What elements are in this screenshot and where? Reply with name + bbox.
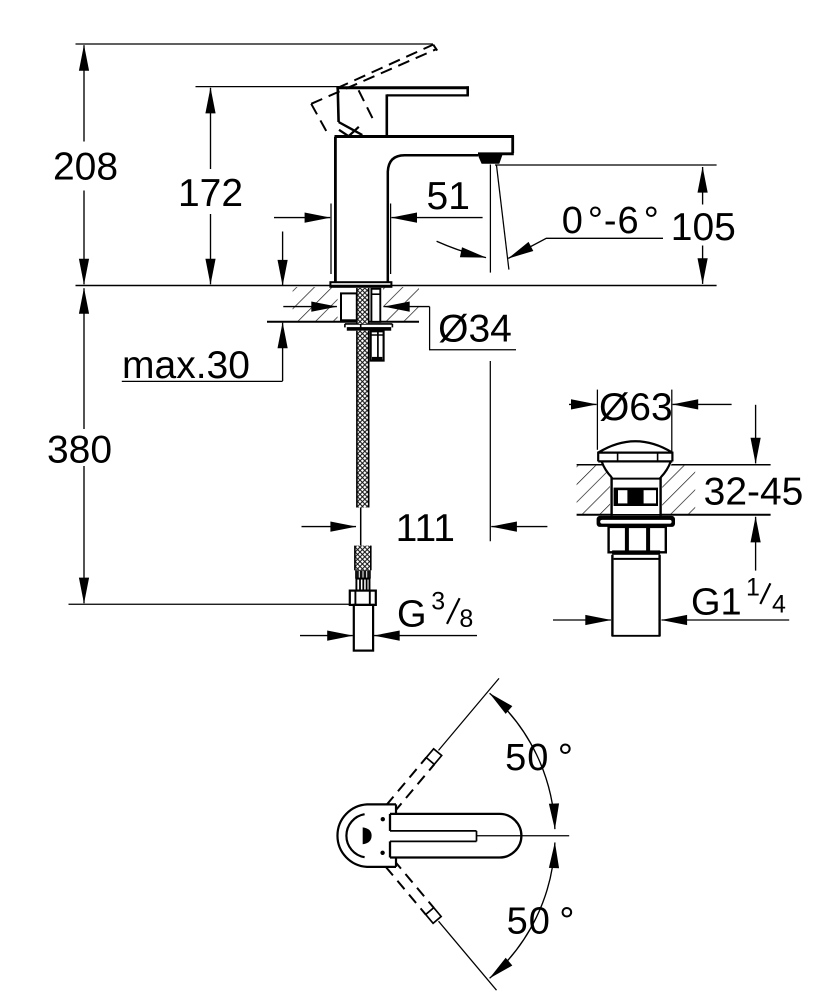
dimension 51 extension lines — [330, 204, 332, 275]
dimension 208 vertical line with arrows — [83, 45, 85, 141]
connector shoulder with stripes — [356, 579, 369, 591]
svg-text:50 °: 50 ° — [505, 737, 574, 779]
leader box O34 — [430, 307, 516, 350]
svg-text:172: 172 — [178, 172, 243, 215]
faucet body top / spout top — [335, 135, 515, 138]
svg-text:380: 380 — [47, 429, 112, 472]
drain body sides — [610, 477, 612, 516]
crimp collar — [355, 570, 371, 578]
threaded stud in hole — [371, 289, 380, 322]
countertop bottom line — [267, 321, 419, 323]
spray angle leader with arrow — [508, 238, 663, 258]
svg-text:32-45: 32-45 — [704, 471, 804, 514]
extension line top of faucet (208 ref) — [76, 43, 434, 45]
body left edge — [334, 137, 337, 283]
svg-text:8: 8 — [459, 605, 473, 633]
top view: lever slot — [390, 830, 477, 832]
drain countertop line bottom — [577, 514, 771, 516]
hose break line — [360, 508, 362, 546]
drain countertop hatching right — [662, 466, 695, 515]
countertop hatching left of hole — [293, 287, 338, 321]
spray angle arc arrow — [437, 241, 486, 257]
spray angle lines 0-6 deg — [489, 165, 491, 273]
top view: arc 50 upper with arrows — [490, 693, 555, 829]
extension line handle top (172 ref) — [196, 86, 340, 88]
spout front edge — [511, 136, 514, 153]
dimension 32-45 arrows — [755, 405, 757, 464]
drain body inner line — [612, 478, 660, 480]
drain neck flare — [602, 462, 612, 478]
top view: dashed lever rotated up 50 — [375, 749, 442, 826]
drain window frame — [614, 488, 658, 506]
lever corner notch (solid) — [339, 127, 359, 136]
drain cap dome — [598, 441, 672, 452]
svg-text:G1: G1 — [691, 582, 742, 624]
drain: O63 extension lines — [596, 390, 598, 450]
svg-text:0 °-6 °: 0 °-6 ° — [562, 200, 660, 242]
extension line aerator level (105 ref) — [495, 164, 717, 166]
spout underside curve + body right edge — [388, 155, 478, 282]
max.30 arrows — [282, 232, 284, 286]
flexible hose braided main — [357, 331, 369, 508]
mounting nut on stud — [371, 331, 384, 360]
svg-text:4: 4 — [772, 590, 786, 618]
drain tailpipe — [611, 555, 613, 636]
svg-text:G: G — [397, 594, 427, 636]
svg-text:1: 1 — [746, 574, 760, 602]
top view: logo blob — [363, 827, 372, 844]
drain body white mask in counter — [598, 461, 673, 514]
dimension 51 arrows — [274, 217, 330, 219]
flexible hose braided upper — [357, 288, 369, 324]
svg-text:3: 3 — [431, 588, 445, 616]
aerator (black) — [478, 155, 503, 164]
G3/8 tube arrows — [300, 635, 353, 637]
horseshoe washer — [345, 323, 393, 325]
base plate — [330, 282, 391, 287]
drain lock nut — [609, 527, 666, 552]
stud rod through washer — [360, 324, 362, 331]
drain countertop hatching left — [577, 466, 610, 515]
top view: dashed lever rotated down 50 — [374, 846, 441, 923]
hose braided lower end — [355, 546, 371, 571]
top view: lever body — [390, 814, 521, 858]
dimension 105 arrows — [702, 167, 704, 205]
svg-text:105: 105 — [671, 206, 736, 249]
svg-text:max.30: max.30 — [122, 344, 250, 387]
top view: screw dots — [381, 817, 385, 821]
svg-text:111: 111 — [396, 507, 455, 550]
top view: angle boundary line upper — [439, 678, 500, 750]
hex nut G3/8 — [350, 591, 376, 605]
dashed raised lever (side view) — [311, 45, 437, 136]
svg-text:50 °: 50 ° — [507, 901, 576, 943]
dimension 172 vertical line with arrows — [210, 88, 212, 169]
top view: angle boundary line lower — [439, 921, 497, 990]
drain flange under counter — [597, 516, 675, 527]
top view: base escutcheon — [337, 804, 396, 867]
handle (side view, closed) — [336, 86, 469, 89]
svg-text:208: 208 — [53, 146, 118, 189]
drain nut bottom step — [612, 550, 660, 554]
top view: centerline — [477, 835, 570, 837]
drain countertop line top — [577, 464, 771, 466]
shank left part in hole — [341, 293, 357, 320]
dimension 111 arrows — [302, 526, 357, 528]
svg-text:Ø63: Ø63 — [599, 386, 673, 429]
extension line for 111 (from O34 box) — [489, 361, 491, 541]
svg-text:Ø34: Ø34 — [438, 308, 512, 351]
max.30 underline leader — [122, 380, 283, 382]
spout bottom — [478, 152, 514, 155]
countertop hatching right of hole — [383, 287, 419, 321]
extension line bottom (380 ref at hose nut) — [69, 603, 350, 605]
svg-text:51: 51 — [427, 175, 470, 218]
dimension O34 arrows at hole — [283, 306, 337, 308]
dimension 380 vertical line with arrows — [83, 288, 85, 429]
dimension G1 1/4 arrows — [553, 619, 611, 621]
top view: arc 50 lower with arrows — [490, 843, 555, 979]
connection tube G3/8 — [354, 605, 373, 651]
countertop line — [76, 285, 717, 287]
drain: O63 dimension arrows — [569, 403, 597, 405]
top view: base inner arc — [346, 814, 364, 857]
